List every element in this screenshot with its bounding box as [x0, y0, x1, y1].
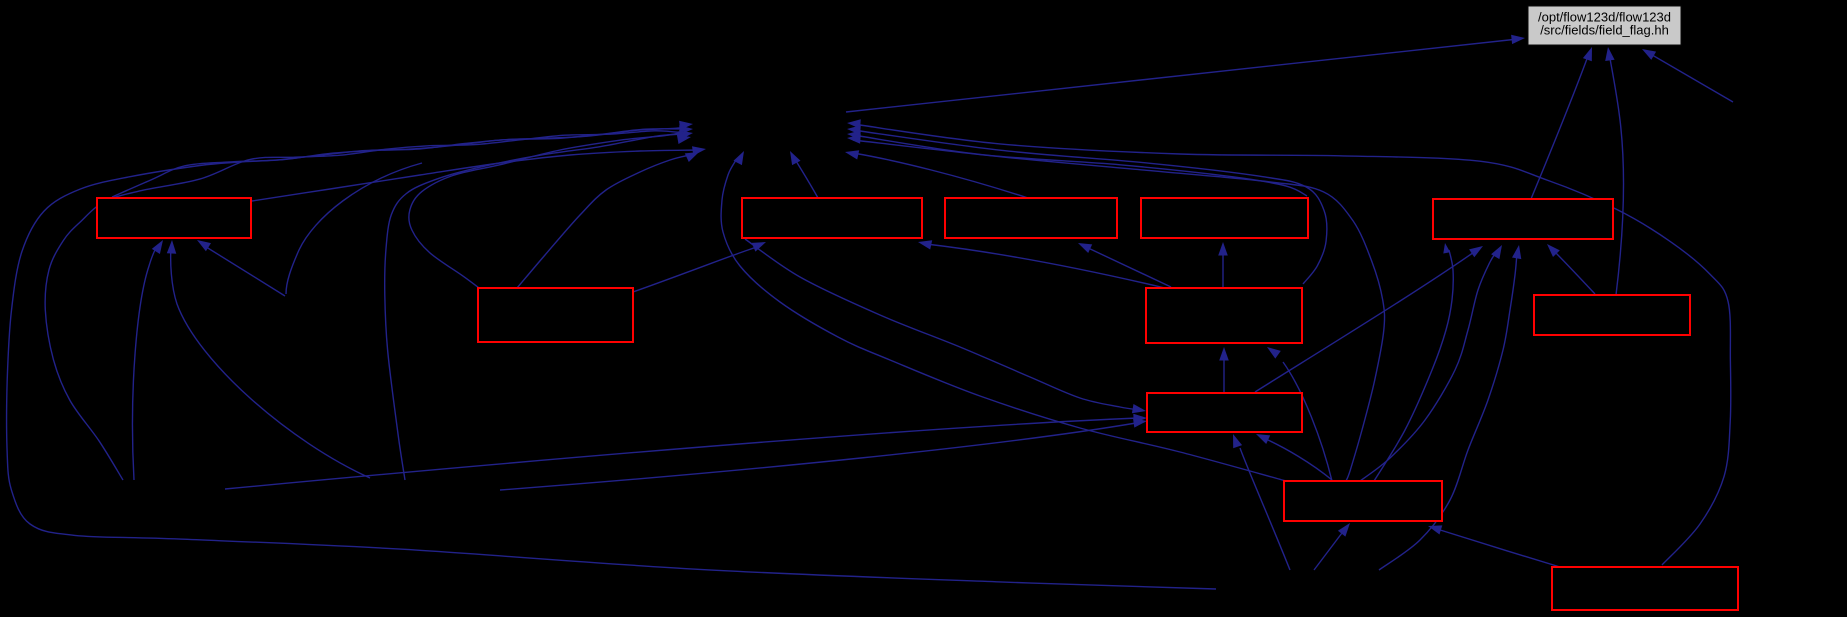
edge N4 to A (vertical): [132, 240, 163, 480]
edge N2 to J: [1314, 523, 1350, 570]
edge J to N1 (bundle strand with right bulge): [847, 134, 1385, 481]
edge K to N1 (long right-side loop): [847, 119, 1731, 565]
edge G to D: [1218, 242, 1228, 288]
edge N3 to gray node: [1642, 49, 1733, 102]
edge C to N1 right: [845, 150, 1028, 198]
edge F top to N1 bottom: [517, 152, 699, 288]
edge N5 to N1 (center vertical strand): [385, 134, 691, 480]
edge N1 to gray node: [846, 35, 1525, 112]
edge F to N1 (hook strand): [409, 131, 692, 288]
node box F: [478, 288, 633, 342]
edge I to G (vertical): [1219, 347, 1229, 392]
edge N2 to N1 (bottom and left edge loop): [7, 125, 1216, 589]
edge B to I (center sweep): [745, 239, 1146, 413]
edge D to N1 (bundle strand): [847, 130, 1307, 196]
node box A: [97, 198, 251, 238]
edge J to E (line 1): [1360, 245, 1502, 481]
edge E to gray node: [1531, 47, 1592, 199]
edge N4 to I (long straight): [225, 414, 1147, 489]
node box C: [945, 198, 1117, 238]
node box I: [1147, 393, 1302, 432]
edge J to E (line via left): [1374, 243, 1453, 481]
node box E: [1433, 199, 1613, 239]
edge B to N1 bottom: [790, 151, 818, 198]
edge H to E: [1547, 244, 1595, 294]
edge H to gray node: [1605, 47, 1623, 295]
edge N4 to N1 (left loop via A corner): [45, 130, 693, 480]
edge N6 to A (short diagonal): [197, 240, 285, 296]
node box B: [742, 198, 922, 238]
edge J to N1 bottom (loop around B left side): [721, 151, 1286, 481]
edge K to J: [1428, 525, 1560, 567]
node box J: [1284, 481, 1442, 521]
svg-text:/src/fields/field_flag.hh: /src/fields/field_flag.hh: [1540, 23, 1669, 38]
node field_flag.hh (current file, gray): [1528, 6, 1681, 45]
edge I to E: [1255, 246, 1483, 392]
edge G to B: [918, 240, 1165, 288]
edge N5 to I (long straight): [500, 418, 1147, 490]
edge G to C: [1078, 243, 1171, 287]
edge J to G: [1267, 347, 1332, 481]
edge F to B: [633, 242, 766, 292]
edge N2 to E: [1379, 245, 1521, 570]
edge N6b to A (curved from lower right): [167, 240, 370, 478]
node box D: [1141, 198, 1308, 238]
node box G: [1146, 288, 1302, 343]
edge braid to N6 descender: [286, 163, 422, 294]
edge A to N1 (cable strand 1): [112, 121, 693, 197]
node box H: [1534, 295, 1690, 335]
node box K: [1552, 567, 1738, 610]
edge G to N1 (bundle strand with curl): [847, 125, 1327, 284]
edge J to I: [1256, 434, 1332, 480]
edge N2 to I: [1233, 434, 1290, 570]
edge A corner to N1 bottom: [252, 146, 706, 201]
